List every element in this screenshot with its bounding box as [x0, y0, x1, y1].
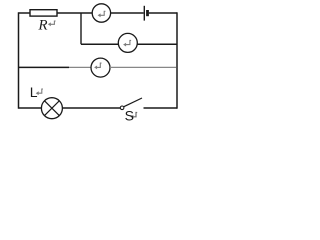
wire meter U1 to battery: [111, 12, 144, 14]
lamp L1 cross: [45, 101, 60, 116]
wire vertical link from top wire down to row 2: [80, 13, 82, 44]
switch S1 pivot circle: [120, 106, 124, 110]
meter U3 circle: [91, 58, 110, 77]
resistor R1 body: [30, 10, 57, 16]
meter U2 return-mark glyph: [123, 40, 131, 46]
svg-text:R: R: [37, 18, 47, 34]
wire top-left horizontal (corner to resistor): [19, 12, 31, 14]
wire bottom-left (corner to lamp): [19, 107, 42, 109]
battery BT1 long plate: [143, 6, 145, 21]
lamp L1 circle: [41, 98, 62, 119]
label S return-mark glyph: [130, 113, 137, 119]
wire row 2 left (link to meter U2): [81, 43, 118, 45]
label R return-mark glyph: [48, 21, 56, 26]
wire right edge vertical: [176, 12, 178, 108]
switch S1 blade: [124, 98, 142, 107]
wire row 3 left black segment: [19, 66, 70, 68]
meter U3 return-mark glyph: [94, 63, 101, 69]
wire left edge vertical: [18, 12, 20, 108]
meter U2 circle: [118, 33, 137, 52]
wire lamp to switch: [62, 107, 120, 109]
wire battery to top-right corner: [149, 12, 177, 14]
wire row 2 right (meter U2 to right edge): [137, 43, 177, 45]
meter U1 return-mark glyph: [98, 11, 106, 17]
wire row 3 gray segment to meter U3: [69, 66, 91, 68]
label L return-mark glyph: [36, 89, 43, 95]
meter U1 (top) circle: [92, 4, 110, 22]
wire row 3 gray segment meter U3 to right edge: [110, 66, 176, 68]
wire resistor to tee junction and ammeter: [57, 12, 92, 14]
battery BT1 short thick plate: [146, 10, 149, 16]
svg-text:L: L: [30, 84, 38, 100]
svg-text:S: S: [125, 108, 134, 123]
wire switch to bottom-right corner: [144, 107, 178, 109]
